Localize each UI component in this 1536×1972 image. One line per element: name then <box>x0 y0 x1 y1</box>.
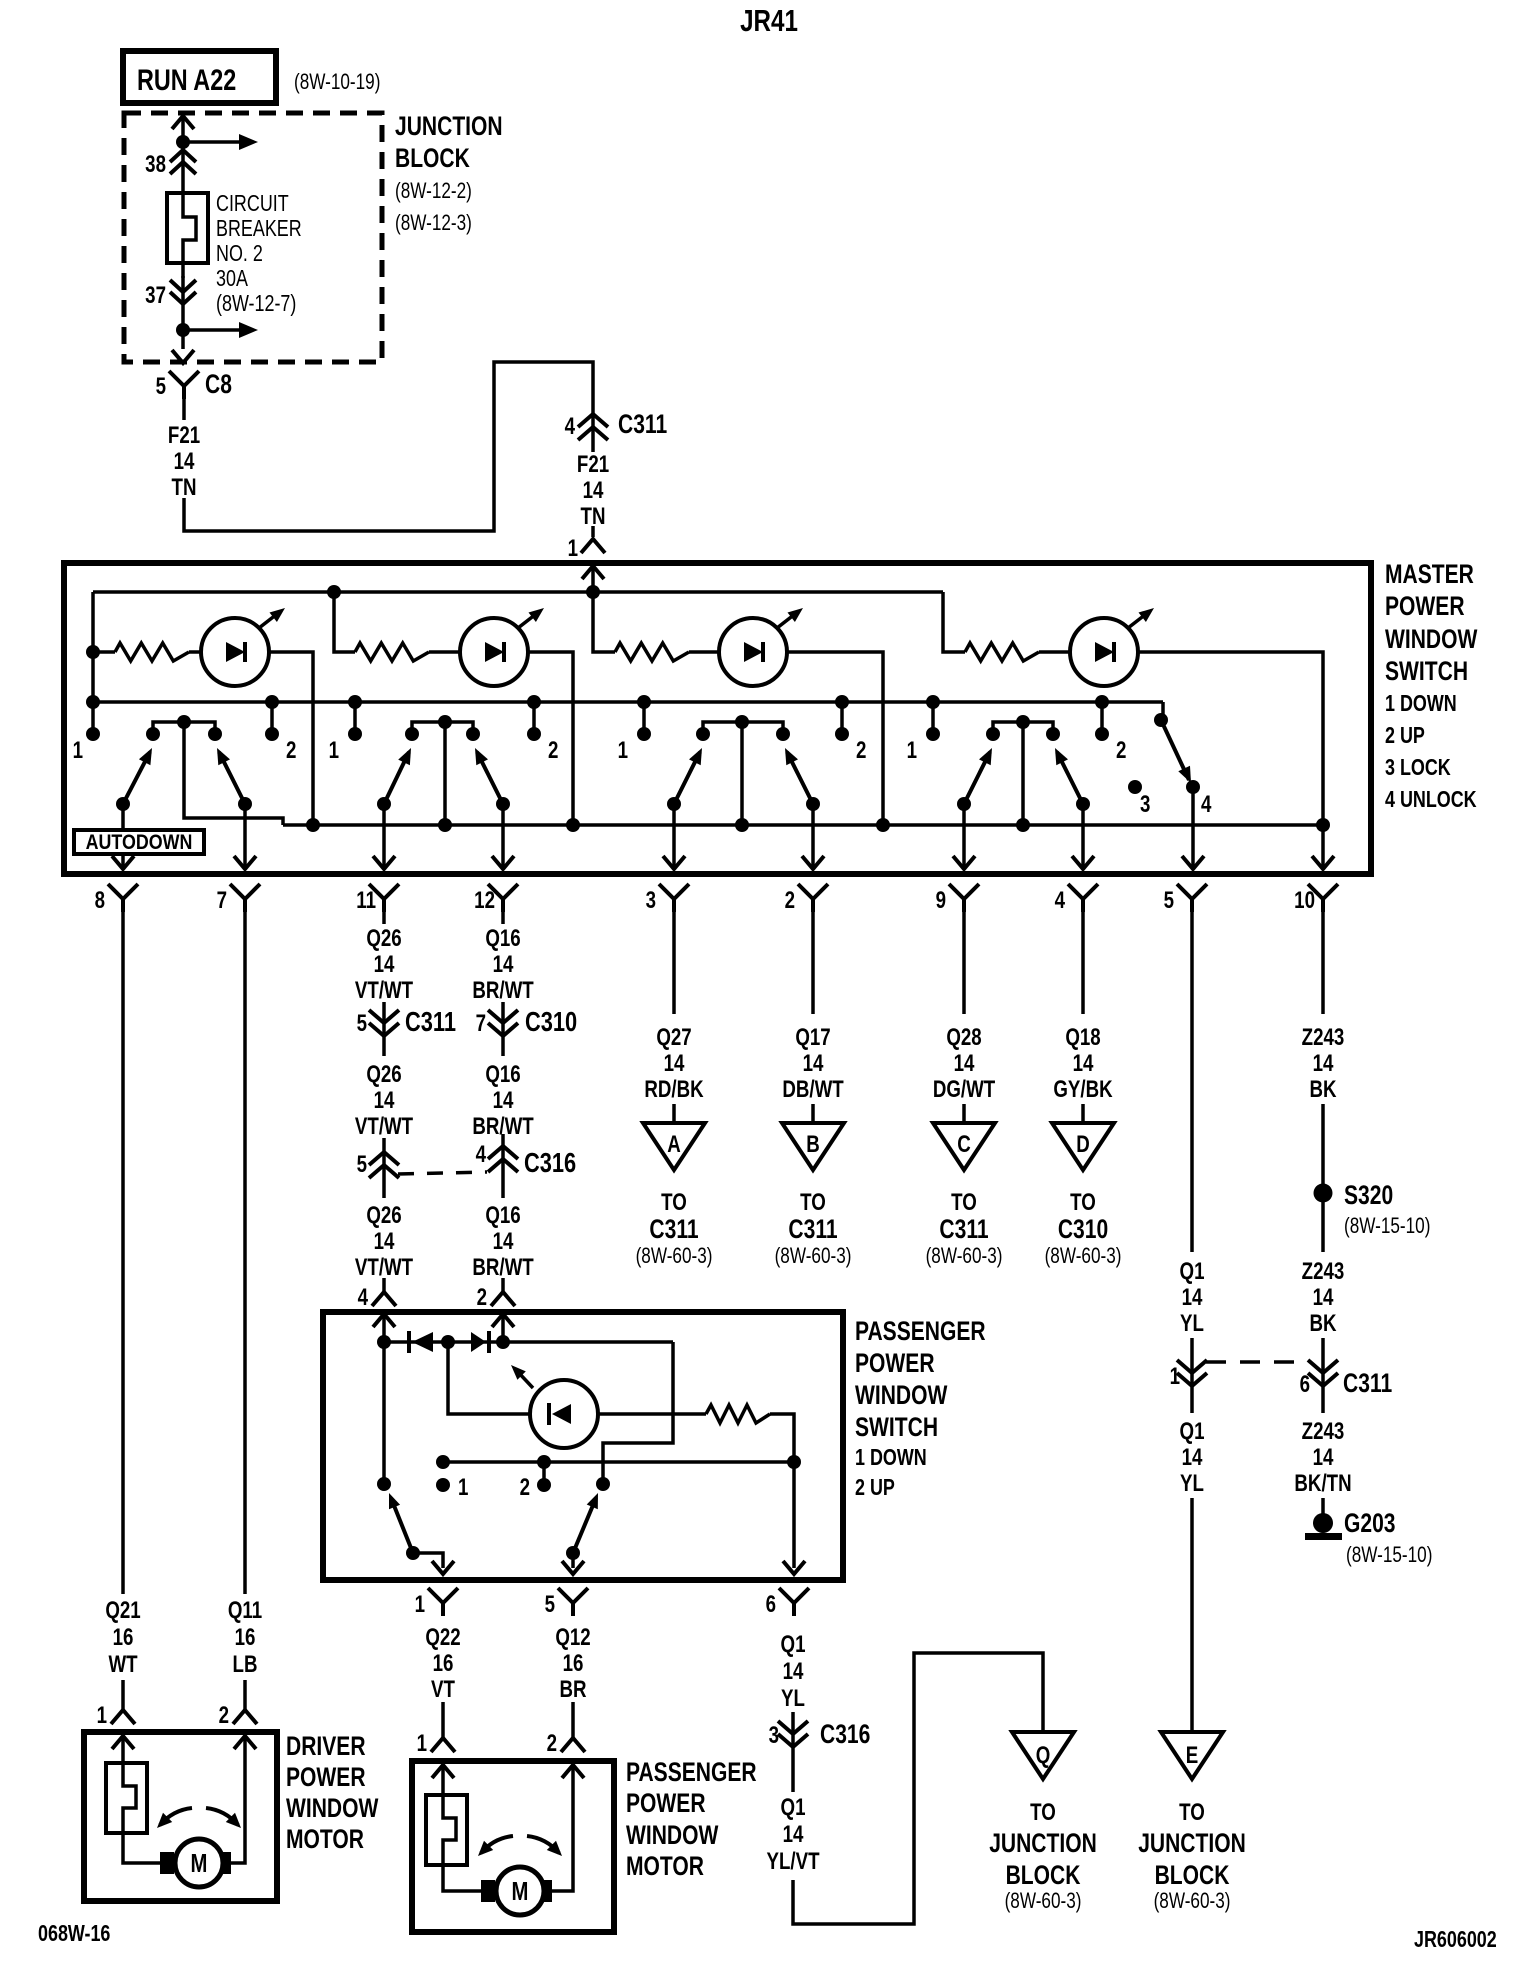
master switch pin 5 connector <box>1177 884 1207 912</box>
svg-text:1: 1 <box>618 737 628 764</box>
wire bottom bus <box>283 823 1323 827</box>
wire Q1 routing to triangle Q <box>793 1653 1043 1924</box>
svg-text:BLOCK: BLOCK <box>1155 1861 1230 1891</box>
svg-text:14: 14 <box>783 1821 804 1848</box>
master switch pin 4 connector <box>1068 884 1098 912</box>
resistor unit2 <box>355 643 429 661</box>
wire cb to motor passenger <box>443 1865 482 1891</box>
svg-text:F21: F21 <box>577 451 609 478</box>
splice pin4 node <box>377 1335 391 1349</box>
wire pin38 to circuit breaker <box>181 148 185 196</box>
svg-text:(8W-12-3): (8W-12-3) <box>395 211 472 236</box>
svg-text:Q: Q <box>1036 1742 1051 1769</box>
wire Q1 to C316 pin3 <box>791 1712 795 1752</box>
svg-text:Q1: Q1 <box>781 1794 806 1821</box>
svg-text:Q28: Q28 <box>946 1024 981 1051</box>
svg-text:A: A <box>667 1131 681 1158</box>
svg-text:DG/WT: DG/WT <box>933 1076 995 1103</box>
svg-text:3: 3 <box>646 887 656 914</box>
svg-text:2: 2 <box>477 1284 487 1311</box>
passenger switch pin 5 connector <box>558 1588 588 1616</box>
terminal 1 unit4 <box>931 702 935 729</box>
splice S320 <box>1314 1184 1333 1203</box>
svg-text:4: 4 <box>1055 887 1065 914</box>
diode right (up) <box>471 1332 486 1352</box>
terminal 2 unit4 <box>1100 702 1104 729</box>
svg-text:14: 14 <box>1182 1284 1203 1311</box>
svg-text:(8W-12-7): (8W-12-7) <box>216 291 296 317</box>
svg-text:Q11: Q11 <box>228 1597 262 1624</box>
svg-text:1: 1 <box>1170 1363 1180 1390</box>
wire exit left x674 <box>672 804 676 868</box>
svg-text:7: 7 <box>476 1010 486 1037</box>
resistor unit4 <box>965 643 1039 661</box>
svg-text:14: 14 <box>1313 1284 1334 1311</box>
arrow pin2 into driver motor <box>231 1738 245 1863</box>
wire right branch to contact <box>603 1342 673 1484</box>
svg-text:3: 3 <box>769 1722 779 1749</box>
wire Q1 below C316 <box>791 1752 795 1792</box>
arrow feed right (bottom) <box>183 328 240 332</box>
svg-text:Z243: Z243 <box>1302 1024 1345 1051</box>
contact 4 (unlock) <box>1186 780 1200 794</box>
svg-text:S320: S320 <box>1344 1181 1393 1211</box>
splice in junction block top <box>176 135 190 149</box>
wire lamp output unit3 <box>787 652 883 825</box>
svg-text:(8W-60-3): (8W-60-3) <box>926 1244 1003 1269</box>
svg-text:5: 5 <box>1164 887 1174 914</box>
splice in junction block bottom <box>176 323 190 337</box>
wire exit right x813 <box>811 804 815 868</box>
svg-text:14: 14 <box>374 1087 395 1114</box>
arrow pin1 into passenger motor <box>441 1766 445 1795</box>
driver motor M <box>160 1852 174 1874</box>
svg-text:5: 5 <box>156 373 166 400</box>
svg-text:38: 38 <box>145 151 166 178</box>
svg-text:14: 14 <box>1313 1444 1334 1471</box>
resistor unit1 <box>115 643 189 661</box>
svg-text:4: 4 <box>476 1141 486 1168</box>
svg-text:C: C <box>957 1131 971 1158</box>
switch left arm x384 <box>384 752 409 804</box>
svg-text:Q26: Q26 <box>366 925 401 952</box>
svg-text:4 UNLOCK: 4 UNLOCK <box>1385 787 1477 813</box>
splice lamp output unit3 <box>876 818 890 832</box>
wire Z243 below C311 <box>1321 1392 1325 1413</box>
svg-text:(8W-60-3): (8W-60-3) <box>1045 1244 1122 1269</box>
wire resistor to lamp unit3 <box>689 650 719 654</box>
svg-text:WINDOW: WINDOW <box>626 1821 719 1851</box>
master switch pin 2 connector <box>798 884 828 912</box>
svg-text:16: 16 <box>433 1650 454 1677</box>
wire Q18 to triangle D <box>1081 1104 1085 1123</box>
terminal 1 passenger <box>436 1478 450 1492</box>
svg-text:4: 4 <box>1201 791 1211 818</box>
svg-text:1: 1 <box>73 737 83 764</box>
master power window switch box <box>64 563 1371 874</box>
off-page connector Q <box>1012 1732 1074 1779</box>
wire Q1 upper <box>1190 912 1194 1252</box>
svg-text:5: 5 <box>357 1010 367 1037</box>
svg-text:TO: TO <box>800 1189 826 1216</box>
svg-text:M: M <box>512 1877 529 1906</box>
wire Q1 to C311 <box>1190 1338 1194 1392</box>
svg-text:TN: TN <box>172 474 197 501</box>
svg-text:(8W-12-2): (8W-12-2) <box>395 179 472 204</box>
svg-text:D: D <box>1076 1131 1090 1158</box>
switch right arm x245 <box>219 752 245 804</box>
wire Q27 upper <box>672 912 676 1014</box>
svg-text:DB/WT: DB/WT <box>782 1076 843 1103</box>
svg-text:6: 6 <box>1300 1371 1310 1398</box>
wire unit4 feed drop <box>943 592 965 652</box>
svg-text:5: 5 <box>357 1151 367 1178</box>
terminal 1 unit3 <box>642 702 646 729</box>
wire resistor to lamp unit1 <box>93 650 115 654</box>
svg-text:MOTOR: MOTOR <box>286 1825 364 1855</box>
terminal 1 unit2 <box>353 702 357 729</box>
passenger switch left contact <box>377 1477 391 1491</box>
svg-text:C310: C310 <box>525 1006 577 1037</box>
master switch pin 3 connector <box>659 884 689 912</box>
dashed connector line C316 <box>398 1172 487 1174</box>
svg-text:JUNCTION: JUNCTION <box>1138 1829 1246 1859</box>
wire from RUN A22 into junction block <box>181 116 185 150</box>
node RUN A22 box <box>123 51 276 103</box>
illumination lamp unit2 <box>460 618 528 686</box>
passenger power window switch box <box>323 1312 843 1580</box>
svg-text:AUTODOWN: AUTODOWN <box>86 831 193 855</box>
svg-text:16: 16 <box>235 1624 256 1651</box>
svg-text:Q16: Q16 <box>485 1202 520 1229</box>
svg-text:14: 14 <box>374 951 395 978</box>
svg-text:POWER: POWER <box>286 1763 366 1793</box>
connector C311 pin 4 <box>578 414 608 440</box>
svg-text:BLOCK: BLOCK <box>1006 1861 1081 1891</box>
switch bridge pivot x184 <box>153 722 215 733</box>
contact 3 (lock) <box>1128 780 1142 794</box>
splice lamp output unit4 <box>1316 818 1330 832</box>
wire unlock contact to pin 5 exit <box>1191 787 1195 868</box>
switch left arm x964 <box>964 752 990 804</box>
svg-text:14: 14 <box>783 1658 804 1685</box>
svg-text:1: 1 <box>568 535 578 562</box>
circuit breaker No.2 30A <box>167 193 208 263</box>
svg-text:C311: C311 <box>405 1006 456 1037</box>
wire exit left x384 <box>382 804 386 868</box>
svg-text:(8W-60-3): (8W-60-3) <box>1154 1889 1231 1914</box>
wire exit pin 10 <box>1321 825 1325 868</box>
svg-text:M: M <box>191 1849 208 1878</box>
svg-text:JR606002: JR606002 <box>1414 1927 1497 1953</box>
wire arm to pin1 exit <box>413 1553 443 1568</box>
arrow pin1 into driver motor <box>121 1738 125 1763</box>
svg-text:2: 2 <box>1116 737 1126 764</box>
svg-text:37: 37 <box>145 282 166 309</box>
svg-text:SWITCH: SWITCH <box>1385 657 1468 687</box>
svg-text:BK: BK <box>1309 1076 1336 1103</box>
connector C316 pin 4 <box>488 1146 518 1172</box>
svg-text:Q17: Q17 <box>795 1024 830 1051</box>
wire Q26 at C316 <box>382 1138 386 1198</box>
node AUTODOWN box <box>74 830 204 854</box>
wire exit left x123 <box>121 804 125 868</box>
wire Q18 upper <box>1081 912 1085 1014</box>
svg-text:YL/VT: YL/VT <box>766 1848 819 1875</box>
wire Q17 to triangle B <box>811 1104 815 1123</box>
svg-text:6: 6 <box>766 1591 776 1618</box>
wire contact bus passenger <box>443 1460 794 1464</box>
junction block dashed box <box>124 113 382 362</box>
svg-text:Q22: Q22 <box>425 1624 460 1651</box>
svg-text:Q18: Q18 <box>1065 1024 1100 1051</box>
wire Q28 to triangle C <box>962 1104 966 1123</box>
off-page connector B <box>782 1123 844 1170</box>
switch left arm x674 <box>674 752 700 804</box>
passenger motor circuit breaker <box>426 1795 467 1865</box>
wire Q17 upper <box>811 912 815 1014</box>
wire Q16 lower <box>501 1278 505 1291</box>
svg-text:30A: 30A <box>216 266 248 292</box>
wire F21 down from C8 <box>182 399 186 420</box>
svg-text:2: 2 <box>548 737 558 764</box>
wire unit2 feed drop <box>334 592 355 652</box>
svg-text:(8W-10-19): (8W-10-19) <box>294 70 380 95</box>
passenger switch pin 1 connector <box>428 1588 458 1616</box>
driver motor circuit breaker <box>106 1763 147 1833</box>
wire cb to motor <box>123 1833 161 1863</box>
svg-text:MOTOR: MOTOR <box>626 1852 704 1882</box>
off-page connector E <box>1161 1732 1223 1779</box>
svg-text:(8W-60-3): (8W-60-3) <box>636 1244 713 1269</box>
svg-text:TO: TO <box>661 1189 687 1216</box>
wire resistor to bus passenger <box>770 1414 794 1462</box>
splice pin2 node <box>496 1335 510 1349</box>
svg-text:14: 14 <box>1313 1050 1334 1077</box>
svg-text:2 UP: 2 UP <box>855 1475 895 1501</box>
svg-text:POWER: POWER <box>855 1349 935 1379</box>
svg-text:10: 10 <box>1294 887 1315 914</box>
connector C311 pin 5 <box>369 1010 399 1036</box>
diode left (down) <box>412 1332 433 1352</box>
svg-text:Q16: Q16 <box>485 1061 520 1088</box>
svg-text:VT/WT: VT/WT <box>355 1113 413 1140</box>
svg-text:C311: C311 <box>649 1215 698 1245</box>
off-page connector D <box>1052 1123 1114 1170</box>
svg-text:2: 2 <box>286 737 296 764</box>
wire diode bus passenger switch <box>384 1340 673 1344</box>
splice diode center node <box>441 1335 455 1349</box>
wire Z243 upper <box>1321 912 1325 1014</box>
arrow feed into master switch <box>591 568 595 592</box>
svg-text:LB: LB <box>233 1651 258 1678</box>
svg-text:2: 2 <box>547 1730 557 1757</box>
lock-unlock switch arm <box>1161 702 1165 718</box>
svg-text:068W-16: 068W-16 <box>38 1921 110 1947</box>
passenger switch right contact <box>596 1477 610 1491</box>
svg-text:POWER: POWER <box>1385 592 1465 622</box>
svg-text:7: 7 <box>217 887 227 914</box>
svg-text:C316: C316 <box>524 1147 576 1178</box>
passenger switch pin 6 connector <box>779 1588 809 1616</box>
svg-text:14: 14 <box>1182 1444 1203 1471</box>
connector C316 pin 3 <box>778 1721 808 1747</box>
arrow down exiting junction block <box>172 350 194 363</box>
svg-text:Q27: Q27 <box>656 1024 691 1051</box>
arrow feed right (top) <box>183 140 240 144</box>
wire Q11 driver motor feed <box>243 912 247 1594</box>
svg-text:2: 2 <box>520 1474 530 1501</box>
wire exit right x503 <box>501 804 505 868</box>
passenger switch pin 2 connector <box>491 1292 515 1306</box>
svg-text:2: 2 <box>856 737 866 764</box>
arrow pin2 into passenger switch <box>501 1316 505 1342</box>
switch right arm x813 <box>787 752 813 804</box>
passenger motor pin 1 connector <box>431 1738 455 1752</box>
terminal 2 unit1 <box>270 702 274 729</box>
splice lamp output unit1 on bottom bus <box>306 818 320 832</box>
svg-text:Q1: Q1 <box>781 1631 806 1658</box>
connector C316 pin 5 <box>369 1152 399 1178</box>
passenger switch left arm <box>391 1498 413 1553</box>
svg-text:1: 1 <box>458 1474 468 1501</box>
terminal 2 unit3 <box>840 702 844 729</box>
svg-text:YL: YL <box>781 1685 805 1712</box>
svg-text:14: 14 <box>493 951 514 978</box>
passenger motor rotation arrows <box>481 1836 513 1853</box>
svg-text:BK/TN: BK/TN <box>1294 1470 1351 1497</box>
wire Q26 at C311 <box>382 1002 386 1056</box>
svg-text:TO: TO <box>951 1189 977 1216</box>
svg-text:1 DOWN: 1 DOWN <box>1385 691 1457 717</box>
wire exit left x964 <box>962 804 966 868</box>
svg-text:(8W-60-3): (8W-60-3) <box>1005 1889 1082 1914</box>
svg-text:Z243: Z243 <box>1302 1258 1345 1285</box>
svg-text:C311: C311 <box>939 1215 988 1245</box>
connector C311 pin 6 <box>1308 1360 1338 1386</box>
wire Z243 to C311 pin6 <box>1321 1338 1325 1392</box>
svg-text:4: 4 <box>358 1284 368 1311</box>
wire lamp output unit1 <box>269 652 313 825</box>
splice top bus unit2 <box>327 585 341 599</box>
svg-text:TN: TN <box>581 503 606 530</box>
svg-text:BR/WT: BR/WT <box>472 1254 533 1281</box>
wire Q1 to triangle E <box>1190 1498 1194 1732</box>
driver power window motor box <box>84 1732 277 1901</box>
svg-text:8: 8 <box>95 887 105 914</box>
svg-text:11: 11 <box>356 887 376 914</box>
svg-text:RD/BK: RD/BK <box>644 1076 704 1103</box>
wire lamp output unit2 <box>528 652 573 825</box>
wire exit right x245 <box>243 804 247 868</box>
svg-text:1: 1 <box>415 1591 425 1618</box>
svg-text:SWITCH: SWITCH <box>855 1413 938 1443</box>
svg-text:5: 5 <box>545 1591 555 1618</box>
switch bridge pivot x742 <box>703 722 783 733</box>
passenger power window motor box <box>412 1761 614 1932</box>
wire Q22 lower <box>441 1702 445 1738</box>
wire Z243 to ground <box>1321 1498 1325 1514</box>
passenger switch right arm <box>573 1498 596 1553</box>
svg-text:14: 14 <box>664 1050 685 1077</box>
wire unit4 pivot to bottom bus <box>1021 722 1025 825</box>
svg-text:JUNCTION: JUNCTION <box>989 1829 1097 1859</box>
wire Z243 below S320 <box>1321 1202 1325 1252</box>
svg-text:Q1: Q1 <box>1180 1418 1205 1445</box>
connector C8 pin 5 <box>169 371 199 399</box>
svg-text:14: 14 <box>954 1050 975 1077</box>
connector C310 pin 7 <box>488 1010 518 1036</box>
master switch pin 8 connector <box>108 884 138 912</box>
master switch pin 11 connector <box>369 884 399 912</box>
svg-text:(8W-15-10): (8W-15-10) <box>1346 1543 1432 1568</box>
svg-text:Q12: Q12 <box>555 1624 590 1651</box>
switch bridge pivot x1023 <box>993 722 1053 733</box>
svg-text:(8W-15-10): (8W-15-10) <box>1344 1214 1430 1239</box>
wire Q21 lower <box>121 1680 125 1710</box>
splice unit1 feed resistor <box>86 645 100 659</box>
terminal 2 passenger <box>542 1462 546 1480</box>
svg-text:14: 14 <box>493 1228 514 1255</box>
svg-text:14: 14 <box>803 1050 824 1077</box>
svg-text:GY/BK: GY/BK <box>1053 1076 1113 1103</box>
wire unit3 feed drop <box>593 592 615 652</box>
wire terminal bus (bus2) <box>93 700 1163 704</box>
svg-text:14: 14 <box>493 1087 514 1114</box>
svg-text:CIRCUIT: CIRCUIT <box>216 191 289 217</box>
svg-text:2 UP: 2 UP <box>1385 723 1425 749</box>
svg-text:16: 16 <box>563 1650 584 1677</box>
illumination lamp passenger switch <box>530 1380 598 1448</box>
wire Q12 lower <box>571 1702 575 1738</box>
wire Q11 lower <box>243 1680 247 1710</box>
svg-text:BREAKER: BREAKER <box>216 216 302 242</box>
svg-text:TO: TO <box>1030 1799 1056 1826</box>
resistor passenger switch <box>706 1405 770 1423</box>
passenger motor M <box>481 1880 495 1902</box>
resistor unit3 <box>615 643 689 661</box>
wire Q1 below C311 <box>1190 1392 1194 1413</box>
splice top bus unit3 <box>586 585 600 599</box>
wire pin37 to bottom splice <box>181 276 185 349</box>
svg-text:12: 12 <box>474 887 495 914</box>
master switch pin 12 connector <box>488 884 518 912</box>
svg-text:WINDOW: WINDOW <box>855 1381 948 1411</box>
svg-text:G203: G203 <box>1344 1509 1396 1539</box>
wire lamp output unit4 <box>1138 652 1323 825</box>
terminal 1 unit1 <box>86 695 100 709</box>
wire bus to pin6 exit <box>792 1462 796 1568</box>
wire Q26 lower <box>382 1278 386 1291</box>
svg-text:C311: C311 <box>1343 1369 1392 1399</box>
pin 38 connector <box>170 150 196 174</box>
passenger motor pin 2 connector <box>561 1738 585 1752</box>
svg-text:14: 14 <box>174 448 195 475</box>
wire unit1 pivot to bottom bus with jog <box>184 722 283 825</box>
illumination lamp unit4 <box>1070 618 1138 686</box>
svg-text:Q16: Q16 <box>485 925 520 952</box>
wire exit right x1083 <box>1081 804 1085 868</box>
wire left branch to contact <box>382 1342 386 1484</box>
svg-text:14: 14 <box>583 477 604 504</box>
wire resistor to lamp unit2 <box>429 650 460 654</box>
svg-text:BR/WT: BR/WT <box>472 977 533 1004</box>
svg-text:C8: C8 <box>205 370 232 400</box>
svg-text:JUNCTION: JUNCTION <box>395 112 503 142</box>
svg-text:WINDOW: WINDOW <box>1385 625 1478 655</box>
svg-text:YL: YL <box>1180 1470 1204 1497</box>
master switch pin 7 connector <box>230 884 260 912</box>
